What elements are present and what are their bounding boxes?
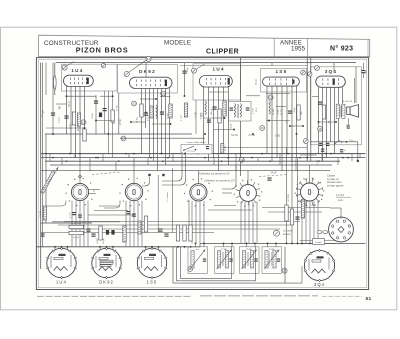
wire V2 pin 2	[145, 88, 147, 128]
wire rail y223	[41, 222, 92, 224]
capacitor C28	[41, 233, 45, 234]
svg-text:Collecteur sur pivote en 23°: Collecteur sur pivote en 23°	[199, 173, 230, 176]
wire V4 pin 4	[281, 86, 283, 171]
resistor R6	[169, 104, 172, 118]
wire routing band 3	[70, 228, 280, 230]
node 25	[318, 126, 323, 131]
junction bus dot 10	[347, 157, 349, 159]
resistor R2b	[111, 110, 114, 122]
junction j14	[289, 125, 291, 127]
node box1 corner	[101, 63, 105, 67]
capacitor C13 top right	[362, 70, 366, 71]
junction dot 20	[342, 157, 344, 159]
svg-text:10 KΩ: 10 KΩ	[92, 113, 94, 119]
junction bus dot 7	[261, 153, 263, 155]
wire S2 feed	[133, 158, 135, 184]
terminal marker d	[301, 70, 306, 75]
wire box3 drop	[195, 100, 197, 134]
wire power row	[310, 141, 358, 143]
svg-text:16: 16	[261, 126, 265, 130]
wire S2 bend	[142, 177, 150, 186]
tuning coil L4 diagonal	[41, 171, 55, 194]
wire routing left 1	[99, 205, 120, 207]
svg-text:100 pF: 100 pF	[69, 100, 71, 107]
wire routing right 1	[214, 205, 236, 207]
wire V4 pin 1	[266, 86, 268, 154]
capacitor C31	[347, 125, 350, 126]
svg-text:N° 923: N° 923	[330, 45, 353, 53]
svg-text:4,7 μF: 4,7 μF	[181, 114, 183, 121]
wire link 18	[276, 106, 286, 108]
capacitor C27 plus	[340, 149, 343, 150]
junction rail2 dot 10	[291, 242, 293, 244]
resistor R19	[290, 209, 293, 225]
wire bus y147	[222, 146, 307, 148]
wire S2 leg 4	[137, 201, 139, 247]
wire nested U ext	[285, 282, 302, 284]
capacitor C2b	[103, 108, 107, 109]
capacitor C12	[318, 102, 322, 103]
capacitor C5	[144, 113, 148, 114]
wire bus y157 filament	[41, 157, 366, 159]
switch wafer S2	[125, 183, 142, 200]
wire rung 16	[337, 158, 339, 165]
svg-text:50 pF: 50 pF	[277, 109, 279, 115]
wire stage1 extra b	[107, 91, 109, 154]
capacitor C30	[78, 215, 82, 216]
wire S4 leg 2	[244, 202, 246, 244]
wire S5 leg 1	[301, 201, 303, 244]
junction j21	[184, 95, 186, 97]
wire S5 leg 3	[309, 201, 311, 244]
wire coil feed 5	[246, 243, 248, 247]
knob ellipse 2	[323, 231, 328, 234]
svg-text:CLIPPER: CLIPPER	[206, 49, 239, 56]
junction j9	[204, 133, 206, 135]
wire power drop	[357, 142, 359, 161]
junction dot 19	[330, 153, 332, 155]
wire socket1 feed 2	[61, 247, 63, 251]
shield box stage 4	[261, 69, 307, 93]
terminal marker e	[315, 66, 320, 71]
capacitor C24	[319, 143, 322, 144]
IF transformer T2 box	[229, 102, 252, 122]
capacitor C21	[158, 229, 162, 230]
junction dot 16	[287, 153, 289, 155]
svg-text:Comm. diode-détect.: Comm. diode-détect.	[186, 141, 207, 144]
junction rail dot 12	[190, 246, 192, 248]
socket V2 base DK92	[92, 248, 121, 277]
junction bus dot 2	[97, 157, 99, 159]
wire V4 pin 5	[286, 86, 288, 154]
wire right col a	[286, 148, 288, 243]
wire v2 top entry	[145, 63, 147, 77]
junction rail dot 3	[67, 246, 69, 248]
junction rail2 dot 7	[267, 242, 269, 244]
wire coil feed 4	[231, 243, 233, 247]
wire power left	[300, 154, 317, 156]
wire socket3 feed 1	[145, 247, 147, 251]
svg-text:51 KΩ: 51 KΩ	[231, 135, 238, 137]
wire S4 leg 4	[252, 202, 254, 244]
diamond node S1	[78, 175, 81, 178]
svg-text:17: 17	[122, 137, 126, 141]
wire diag marker c	[196, 64, 205, 70]
wire rung 9	[172, 154, 174, 162]
wire link 16	[160, 96, 171, 98]
wire S1 leg 5	[87, 201, 89, 247]
tube V4 1S5 envelope	[263, 77, 300, 86]
capacitor C10	[230, 108, 234, 109]
wire V5 pin 6	[338, 87, 340, 142]
wire S1 stub r1	[89, 189, 100, 191]
terminal marker e2	[308, 72, 312, 76]
capacitor C20	[132, 214, 136, 215]
terminal marker b	[124, 71, 129, 76]
wire link 12	[152, 123, 171, 125]
wire S4 leg 5	[256, 202, 258, 244]
resistor R4	[140, 104, 143, 117]
wire routing band 4	[41, 232, 214, 234]
coil L2	[205, 101, 206, 115]
node 19	[239, 157, 244, 162]
node 16	[260, 126, 265, 131]
wire bend S4 a	[222, 165, 236, 189]
capacitor C16	[91, 234, 95, 235]
capacitor C9	[212, 107, 216, 108]
svg-text:20 000: 20 000	[273, 108, 275, 115]
svg-text:3Q4: 3Q4	[314, 282, 325, 287]
wire C13 stub	[363, 63, 365, 70]
wire bus y138	[120, 137, 205, 139]
wire nested U outer	[173, 247, 285, 283]
resistor R1	[72, 112, 75, 125]
wire S3 feed	[197, 171, 199, 184]
svg-text:50 pF: 50 pF	[187, 67, 189, 73]
IF transformer T2 core	[236, 104, 238, 118]
svg-text:DK92: DK92	[139, 69, 156, 74]
junction j19	[107, 133, 109, 135]
node 13	[132, 101, 137, 106]
rotary switch rear view	[329, 217, 354, 242]
node 14	[146, 56, 151, 61]
wire V3 pin 1	[203, 87, 205, 154]
svg-text:15 μ: 15 μ	[349, 140, 354, 142]
wire batt line2	[300, 242, 336, 244]
wire V2 pin 5	[157, 88, 159, 170]
junction j5	[130, 121, 132, 123]
wire right col c	[297, 158, 299, 244]
wire S2 leg 3	[133, 201, 135, 247]
svg-text:2º MF: 2º MF	[246, 248, 252, 251]
capacitor C26	[321, 149, 324, 150]
svg-text:0,1 μF: 0,1 μF	[59, 116, 61, 123]
caption smudge line 3	[322, 295, 362, 297]
svg-text:4 000: 4 000	[97, 237, 99, 243]
wire C7	[184, 63, 186, 96]
IF coil group 3	[240, 247, 260, 273]
junction j15	[302, 125, 304, 127]
wire rung 6	[115, 161, 117, 171]
wire nested U inner	[181, 247, 232, 279]
wire link 8	[131, 121, 146, 123]
wire routing band 1	[64, 221, 300, 223]
wire bend S3 a	[162, 152, 186, 185]
switch SW2 lever	[335, 140, 340, 143]
wire V2 pin 6	[161, 88, 163, 153]
wire diag marker a	[67, 62, 74, 67]
junction bus dot 9	[325, 153, 327, 155]
svg-text:1U4: 1U4	[213, 67, 225, 72]
wire right col b	[291, 154, 293, 244]
svg-text:15 pas: 15 pas	[256, 78, 258, 85]
svg-text:1S5: 1S5	[275, 69, 287, 74]
wire V3 pin 2	[208, 87, 210, 161]
wire link 13	[214, 129, 234, 131]
resistor R14	[144, 216, 147, 232]
svg-text:3º MF: 3º MF	[269, 248, 275, 251]
wire V3 pin 3	[213, 87, 215, 158]
potentiometer P2	[69, 231, 84, 234]
junction j2	[84, 127, 86, 129]
junction dot 3	[66, 160, 68, 162]
wire S1 leg 3	[79, 201, 81, 247]
wire bus y165	[50, 164, 332, 166]
junction bus dot 5	[197, 153, 199, 155]
wire S3 leg 2	[195, 201, 197, 244]
resistor R21	[221, 144, 224, 154]
wire S1 leg 2	[75, 201, 77, 247]
svg-text:du léger gauche: du léger gauche	[327, 184, 344, 187]
switch box comm	[181, 144, 212, 153]
svg-text:65 μF: 65 μF	[103, 238, 105, 244]
IF coil group 4	[262, 247, 282, 273]
wire rung 18	[359, 154, 361, 158]
junction dot 6	[118, 160, 120, 162]
svg-text:3Q4: 3Q4	[325, 69, 338, 74]
junction j16	[318, 121, 320, 123]
IF transformer T2 winding b	[240, 104, 241, 118]
resistor R11	[322, 105, 325, 119]
junction dot 10	[184, 153, 186, 155]
wire routing right 2	[208, 209, 252, 211]
junction j7	[155, 98, 157, 100]
junction j20	[161, 153, 163, 155]
resistor R15	[176, 225, 179, 241]
junction bus dot 4	[167, 157, 169, 159]
svg-text:0,1 μF: 0,1 μF	[69, 211, 71, 217]
wire top bus second	[180, 65, 307, 67]
svg-text:au sujet sur: au sujet sur	[327, 178, 339, 181]
svg-text:20 000: 20 000	[40, 210, 42, 217]
wire speaker ground	[347, 118, 349, 125]
wire S4 leg 3	[248, 202, 250, 244]
resistor R13	[123, 226, 126, 242]
junction rail2 dot 13	[309, 242, 311, 244]
junction rail dot 11	[184, 246, 186, 248]
wire S3 leg 1	[191, 201, 193, 244]
header divider annee	[273, 39, 275, 57]
wire bus y134	[45, 133, 192, 135]
wire S1 stub r2	[89, 193, 96, 195]
junction rail dot 10	[177, 246, 179, 248]
junction dot 12	[221, 160, 223, 162]
junction rail dot 7	[145, 246, 147, 248]
wire bend S4 b	[222, 192, 232, 194]
resistor R10	[297, 105, 300, 120]
wire bend S3 b	[162, 152, 182, 181]
wire link 17	[209, 91, 228, 93]
junction j1	[66, 95, 68, 97]
svg-text:4,7 MΩ: 4,7 MΩ	[288, 194, 290, 201]
node square b	[162, 174, 164, 176]
terminal power	[303, 139, 308, 144]
wire V4 pin 6	[291, 86, 293, 161]
svg-text:PIZON BROS: PIZON BROS	[76, 45, 129, 54]
junction dot 5	[95, 157, 97, 159]
wire coil feed 7	[267, 243, 269, 247]
wire V5 pin 3	[326, 87, 328, 157]
wire link 4	[246, 95, 260, 97]
wire rail y246 left	[37, 246, 201, 248]
svg-text:0,5 MΩ: 0,5 MΩ	[201, 112, 203, 119]
wire batt line1	[300, 240, 336, 242]
svg-text:50 pF: 50 pF	[231, 123, 233, 129]
junction rail2 dot 9	[286, 242, 288, 244]
capacitor C25	[326, 143, 329, 144]
wire rung 1	[49, 154, 51, 162]
wire routing band 2	[58, 224, 290, 226]
header divider numero	[307, 39, 309, 57]
svg-text:31 KΩ: 31 KΩ	[137, 117, 139, 123]
svg-text:4 700: 4 700	[71, 123, 73, 129]
switch wafer S5	[301, 183, 319, 201]
junction dot 1	[45, 153, 47, 155]
output transformer winding a	[336, 104, 339, 118]
wire V5 pin 5	[334, 87, 336, 153]
capacitor C3 0,1uF	[94, 101, 98, 102]
wire box5 inner drop	[355, 67, 357, 103]
shield box stage 1	[62, 64, 118, 91]
svg-text:C.I. arrière: C.I. arrière	[166, 191, 169, 202]
wire socket1 feed 3	[67, 247, 69, 251]
wire coil feed 2	[203, 243, 205, 247]
header right inner line	[367, 40, 369, 57]
switch cap inside	[206, 146, 209, 147]
fusible box	[313, 239, 325, 245]
wire nested U mid	[177, 247, 256, 281]
junction dot 2	[52, 157, 54, 159]
wire link 10	[266, 120, 290, 122]
socket V3 base 1S5	[137, 248, 166, 277]
wire socket2 feed 3	[112, 247, 114, 251]
svg-text:DK92: DK92	[99, 279, 114, 284]
wire separator x240	[240, 58, 242, 102]
junction j8	[170, 123, 172, 125]
capacitor C4	[99, 113, 102, 118]
tube V2 DK92 envelope	[130, 77, 173, 88]
electrolytic C17	[106, 230, 109, 235]
capacitor C23	[295, 217, 299, 218]
svg-text:1S5: 1S5	[147, 279, 158, 284]
svg-text:100 pF: 100 pF	[211, 108, 213, 115]
IF coil group 2	[215, 247, 235, 273]
junction j3	[95, 120, 97, 122]
junction rail2 dot 12	[301, 242, 303, 244]
wire S1 leg 4	[83, 201, 85, 247]
wire bend S3 c	[188, 200, 190, 230]
wire C1	[52, 95, 54, 134]
wire left rail 1b	[41, 63, 43, 247]
wire HT top bus	[56, 62, 356, 64]
wire top left drop1	[45, 63, 47, 95]
junction rail2 dot 1	[195, 242, 197, 244]
wire link 7	[96, 120, 113, 122]
wire rung 10	[213, 158, 215, 165]
wire socket2 feed 2	[106, 247, 108, 251]
svg-text:C1 cond.: C1 cond.	[283, 231, 293, 233]
terminal C1 circle	[274, 230, 280, 236]
junction rail2 dot 3	[223, 242, 225, 244]
wire link 5	[266, 93, 290, 95]
capacitor C6	[160, 112, 164, 113]
wire link 2	[100, 95, 113, 97]
svg-text:pinceau retour: pinceau retour	[327, 181, 342, 184]
wire coil feed 3	[223, 243, 225, 247]
junction rail2 dot 4	[231, 242, 233, 244]
wire rung 11	[235, 154, 237, 171]
wire V4 pin 3	[276, 86, 278, 158]
junction j13	[268, 120, 270, 122]
wire socket1 feed 1	[54, 247, 56, 251]
wire top left drop2	[52, 63, 54, 95]
wire v5 top entry	[333, 63, 335, 72]
svg-text:25: 25	[318, 127, 322, 131]
wire left rail 2	[45, 134, 47, 223]
node square a	[148, 174, 150, 176]
junction dot 9	[162, 160, 164, 162]
wire rung 8	[147, 158, 149, 165]
junction dot 17	[306, 157, 308, 159]
wire rotary feed	[340, 208, 342, 219]
wire V5 pin 7	[342, 87, 344, 104]
junction power b	[346, 141, 348, 143]
wire rung 3	[74, 154, 76, 158]
svg-text:51: 51	[366, 296, 372, 302]
wire coil feed 6	[254, 243, 256, 247]
shield box stage 5	[311, 67, 362, 145]
wire link 1	[66, 95, 96, 97]
potentiometer P1	[69, 225, 84, 228]
IF coil group 1	[188, 247, 208, 273]
junction rail dot 6	[112, 246, 114, 248]
junction j22	[296, 133, 298, 135]
junction dot 14	[251, 157, 253, 159]
caption smudge line	[37, 295, 192, 297]
wire rung 12	[257, 158, 259, 162]
junction j4	[112, 95, 114, 97]
junction dot 11	[204, 157, 206, 159]
node 17	[121, 136, 126, 141]
wire S1 feed	[79, 161, 81, 183]
junction dot 4	[79, 153, 81, 155]
terminal marker a	[62, 65, 67, 70]
wire V1 pin 2	[70, 86, 72, 153]
switch wafer S1	[71, 183, 88, 200]
wire stage1 extra a	[104, 91, 106, 134]
svg-text:22 KΩ: 22 KΩ	[167, 113, 169, 119]
wire rung 15	[321, 154, 323, 162]
